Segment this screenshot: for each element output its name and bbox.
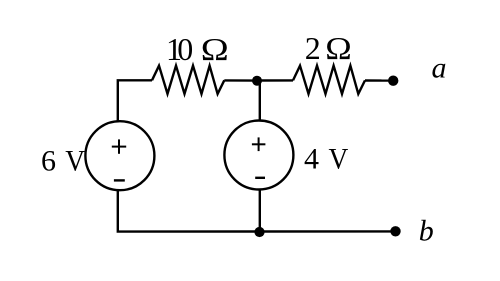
wire: left vertical from 6V source bottom down to bottom rail, then right to terminal b: [118, 190, 391, 231]
resistor R2 (2 ohm) zigzag: [293, 66, 365, 94]
voltage source V2 minus sign: [255, 177, 265, 179]
voltage source V2 circle (4 V): [224, 121, 293, 190]
wire: top junction node to R2: [257, 79, 293, 81]
terminal b dot: [390, 226, 400, 236]
wire: R2 right end to terminal a: [365, 79, 390, 81]
svg-text:b: b: [419, 214, 434, 247]
wire: 4V source bottom down to bottom junction: [259, 189, 261, 232]
voltage source V1 minus sign: [114, 179, 125, 181]
svg-text:V: V: [65, 144, 85, 177]
svg-text:0: 0: [177, 31, 193, 67]
voltage source V1 circle (6 V): [85, 121, 154, 190]
svg-text:Ω: Ω: [325, 30, 352, 66]
svg-text:V: V: [329, 143, 349, 176]
wire: top-left vertical from 6V source top up to top rail, then right to R1: [118, 80, 152, 121]
wire: middle vertical from top junction down to 4V source top: [259, 81, 261, 122]
voltage source V2 plus sign: [252, 137, 266, 151]
node: bottom junction dot: [254, 227, 264, 237]
node: top junction dot: [252, 76, 262, 86]
svg-text:4: 4: [304, 143, 319, 176]
svg-text:a: a: [432, 51, 447, 84]
voltage source V1 plus sign: [112, 139, 126, 153]
wire: R1 right end to top junction node: [224, 79, 257, 82]
svg-text:2: 2: [305, 30, 321, 66]
resistor R1 (10 ohm) zigzag: [152, 66, 224, 94]
terminal a dot: [388, 76, 398, 86]
svg-text:Ω: Ω: [201, 31, 229, 67]
svg-text:6: 6: [41, 144, 56, 177]
